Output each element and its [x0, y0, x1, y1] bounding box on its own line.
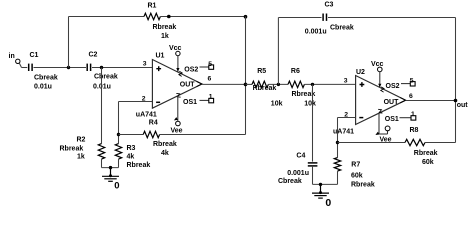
- capacitor C4: [308, 162, 318, 164]
- svg-text:60k: 60k: [351, 172, 363, 179]
- svg-text:3: 3: [344, 77, 348, 84]
- resistor R6: [288, 81, 304, 87]
- wire C4 bottom: [312, 166, 314, 185]
- svg-text:6: 6: [409, 93, 413, 100]
- svg-text:5: 5: [410, 78, 414, 85]
- svg-text:1k: 1k: [77, 154, 85, 161]
- svg-text:Vee: Vee: [171, 127, 183, 134]
- wire in to C1: [22, 67, 28, 69]
- svg-text:5: 5: [208, 61, 212, 68]
- svg-text:Rbreak: Rbreak: [153, 24, 177, 31]
- wire U1 OS1 stub: [200, 99, 209, 101]
- svg-text:uA741: uA741: [136, 112, 157, 119]
- U2 OS2 open pin square: [410, 82, 415, 86]
- svg-text:OS1: OS1: [183, 99, 197, 106]
- svg-text:0.001u: 0.001u: [287, 170, 309, 177]
- svg-text:Rbreak: Rbreak: [153, 141, 177, 148]
- capacitor C2: [86, 64, 88, 71]
- wire C2 to U1 pin3: [92, 67, 152, 69]
- svg-text:Cbreak: Cbreak: [94, 74, 118, 81]
- svg-text:OUT: OUT: [384, 99, 400, 106]
- wire input stub: [19, 63, 21, 67]
- svg-text:Cbreak: Cbreak: [34, 75, 58, 82]
- svg-text:Vcc: Vcc: [371, 61, 384, 68]
- U1 OS2 open pin square: [209, 65, 214, 69]
- svg-text:U1: U1: [156, 52, 165, 59]
- svg-text:3: 3: [143, 60, 147, 67]
- op-amp U1 plus input mark: [156, 66, 161, 71]
- resistor R7: [334, 158, 340, 172]
- wire U1 V- to Vee: [177, 96, 179, 121]
- junction ground rail stage1: [109, 166, 112, 169]
- wire ground rail stage2: [313, 183, 338, 185]
- wire feedback right leg down: [245, 17, 247, 85]
- wire C3 loop top right: [328, 17, 456, 19]
- svg-text:Rbreak: Rbreak: [351, 181, 375, 188]
- op-amp U2 minus input mark: [359, 117, 363, 119]
- svg-text:R1: R1: [148, 3, 157, 10]
- svg-text:C4: C4: [296, 152, 305, 159]
- svg-text:1k: 1k: [161, 33, 169, 40]
- junction node A: [67, 66, 70, 69]
- wire R4 left: [119, 134, 144, 136]
- svg-text:uA741: uA741: [333, 128, 354, 135]
- svg-text:R2: R2: [77, 137, 86, 144]
- U2 OS1 open pin square: [411, 116, 416, 120]
- svg-text:1: 1: [209, 93, 213, 100]
- U1 OS2 edge mark: [178, 71, 182, 76]
- svg-text:2: 2: [142, 95, 146, 102]
- svg-text:0.01u: 0.01u: [34, 84, 52, 91]
- wire U2 V- stub up: [387, 131, 389, 134]
- U1 V+ pin arrow: [176, 68, 179, 72]
- wire U2 OS2 stub: [401, 83, 410, 85]
- resistor R4: [143, 131, 159, 137]
- wire Vcc to U2 V+ pin: [379, 72, 381, 88]
- svg-text:R6: R6: [291, 68, 300, 75]
- junction R5 R6 C3 node: [277, 83, 280, 86]
- junction node B: [100, 66, 103, 69]
- svg-text:0: 0: [325, 197, 331, 207]
- junction output node: [454, 99, 458, 103]
- wire C1 to node A: [34, 67, 87, 69]
- svg-text:Cbreak: Cbreak: [278, 178, 302, 185]
- op-amp U1 triangle: [152, 60, 202, 109]
- wire U2 V- down: [378, 113, 380, 134]
- svg-text:out: out: [457, 102, 469, 109]
- input terminal circle: [16, 59, 20, 63]
- wire pin2 down to R3: [118, 102, 120, 144]
- svg-text:1: 1: [411, 111, 415, 118]
- svg-text:in: in: [9, 53, 15, 60]
- wire U1 output: [202, 83, 246, 85]
- wire R7 to ground rail: [337, 171, 339, 184]
- resistor R5: [252, 81, 268, 87]
- wire node B down to R2: [101, 68, 103, 144]
- U2 OS1 edge mark: [378, 109, 382, 114]
- wire R2 to ground rail: [101, 159, 103, 168]
- wire C3 loop right leg: [455, 18, 457, 143]
- U1 OUT apex arrow: [197, 81, 202, 86]
- op-amp U1 minus input mark: [156, 101, 160, 103]
- resistor R2: [98, 144, 104, 160]
- wire R6 to U2 pin3: [304, 83, 355, 85]
- svg-text:Cbreak: Cbreak: [330, 25, 354, 32]
- U1 V- pin arrow: [173, 117, 178, 122]
- svg-text:C3: C3: [325, 2, 334, 9]
- wire U1 OS2 stub: [200, 66, 209, 68]
- wire Vcc to U1 V+ pin: [177, 56, 179, 72]
- svg-text:U2: U2: [356, 69, 365, 76]
- U2 V- pin arrow: [375, 132, 380, 137]
- resistor R8: [405, 139, 425, 145]
- wire R3 to ground rail: [118, 159, 120, 168]
- wire C3 loop left leg: [277, 18, 279, 85]
- svg-text:10k: 10k: [304, 101, 316, 108]
- U2 OS2 edge mark: [380, 87, 384, 92]
- svg-text:2: 2: [344, 112, 348, 119]
- U1 OS1 edge mark: [176, 93, 180, 98]
- U2 V+ pin arrow: [378, 84, 381, 88]
- svg-text:C2: C2: [89, 52, 98, 59]
- capacitor C1: [28, 64, 30, 71]
- wire R1 to right leg: [160, 16, 245, 18]
- junction ground rail stage2: [319, 183, 322, 186]
- wire pin2 down to R7: [337, 118, 339, 158]
- power bubble Vee U1: [176, 121, 181, 126]
- resistor R1: [144, 13, 160, 19]
- svg-text:OS1: OS1: [385, 116, 399, 123]
- junction R7 R8 node: [336, 141, 339, 144]
- svg-text:Rbreak: Rbreak: [253, 85, 277, 92]
- wire R5 to R6: [268, 83, 288, 85]
- svg-text:0.001u: 0.001u: [305, 29, 327, 36]
- wire U1 pin2 left: [119, 101, 153, 103]
- svg-text:4k: 4k: [161, 150, 169, 157]
- wire C3 loop top left: [278, 17, 321, 19]
- wire to R5: [246, 83, 253, 85]
- svg-text:4k: 4k: [127, 153, 135, 160]
- wire U2 pin2 left: [338, 117, 356, 119]
- wire R4 to right leg: [160, 134, 246, 136]
- svg-text:R7: R7: [351, 161, 360, 168]
- wire R8 left: [338, 142, 406, 144]
- wire U2 output: [406, 100, 456, 102]
- svg-text:OS2: OS2: [184, 67, 198, 74]
- wire U2 V- stub right: [379, 133, 388, 135]
- svg-text:60k: 60k: [422, 159, 434, 166]
- capacitor C3: [322, 14, 324, 21]
- svg-text:R3: R3: [127, 145, 136, 152]
- svg-text:Rbreak: Rbreak: [127, 162, 151, 169]
- wire node A up to feedback: [68, 17, 70, 68]
- svg-text:R5: R5: [257, 68, 266, 75]
- op-amp U2 plus input mark: [360, 82, 365, 87]
- power bubble Vee U2: [385, 126, 390, 131]
- ground 0 stage1: [102, 168, 119, 182]
- svg-text:C1: C1: [30, 52, 39, 59]
- U1 OS1 open pin square: [209, 98, 214, 102]
- junction dot after R1: [167, 15, 171, 19]
- ground 0 stage2: [312, 184, 329, 198]
- op-amp U2 triangle: [356, 76, 406, 125]
- wire ground rail stage1: [102, 167, 119, 169]
- svg-text:Rbreak: Rbreak: [414, 150, 438, 157]
- svg-text:10k: 10k: [271, 101, 283, 108]
- svg-text:OS2: OS2: [386, 83, 400, 90]
- power bubble Vcc U2: [378, 67, 383, 72]
- junction R3 R4 node: [117, 133, 120, 136]
- junction R6 C4 node: [311, 83, 314, 86]
- resistor R3: [115, 144, 121, 160]
- U2 OUT apex arrow: [400, 98, 405, 103]
- power bubble Vcc U1: [176, 51, 180, 55]
- svg-text:R4: R4: [149, 120, 158, 127]
- wire top feedback left: [69, 16, 145, 18]
- svg-text:Rbreak: Rbreak: [292, 91, 316, 98]
- svg-text:0: 0: [114, 181, 119, 192]
- wire R8 to output leg: [425, 142, 456, 144]
- wire right leg lower: [245, 84, 247, 134]
- junction U1 output node: [244, 83, 248, 87]
- wire U2 OS1 stub: [400, 117, 412, 119]
- wire C4 top: [312, 84, 314, 161]
- corner dot feedback right: [244, 15, 248, 19]
- svg-text:R8: R8: [410, 127, 419, 134]
- svg-text:6: 6: [208, 75, 212, 82]
- svg-text:Rbreak: Rbreak: [60, 146, 84, 153]
- svg-text:OUT: OUT: [180, 82, 196, 89]
- svg-text:Vcc: Vcc: [169, 45, 182, 52]
